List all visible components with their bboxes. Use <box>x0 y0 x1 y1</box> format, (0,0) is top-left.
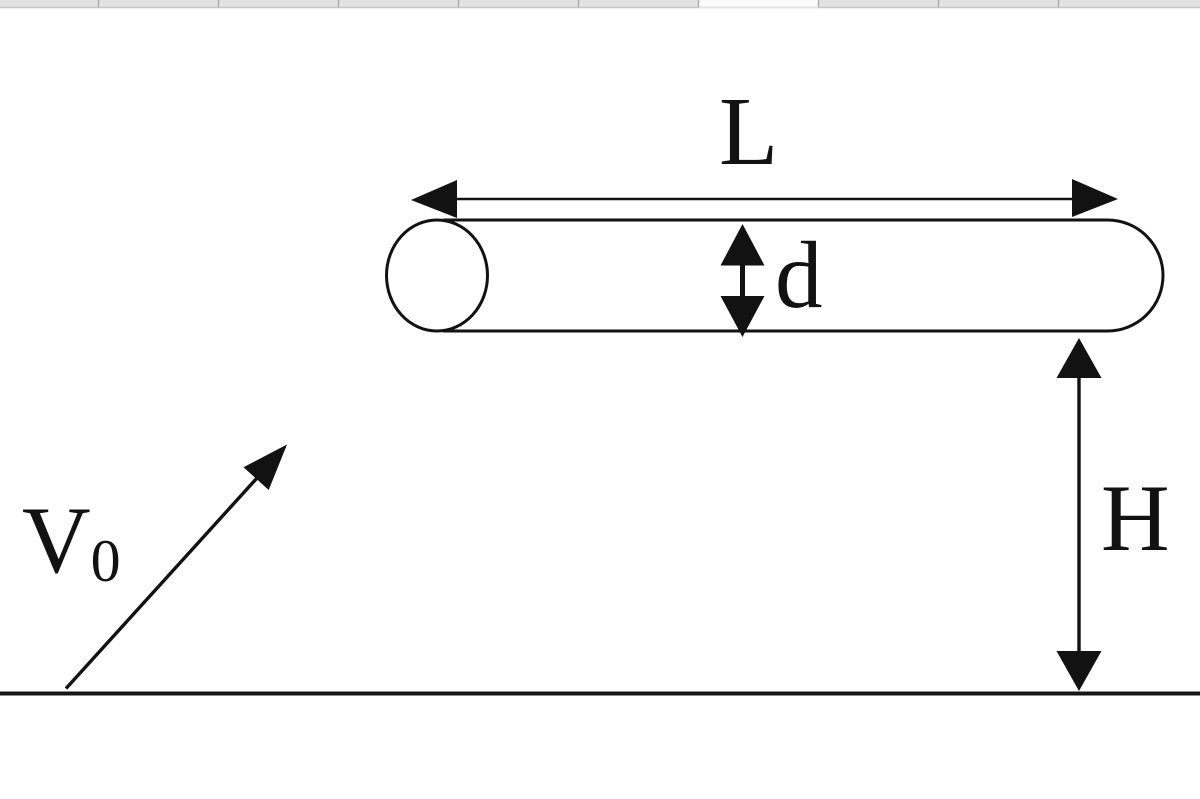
arrow d (double-headed vertical inside pipe) <box>721 224 765 337</box>
svg-text:d: d <box>775 222 823 328</box>
arrow V0 (launch velocity) <box>66 445 287 689</box>
spreadsheet header strip <box>0 0 1200 8</box>
svg-text:V0: V0 <box>22 487 121 594</box>
arrow H (double-headed vertical) <box>1057 338 1102 691</box>
svg-text:H: H <box>1101 465 1170 571</box>
cylinder pipe body <box>443 220 1163 331</box>
arrow L (double-headed horizontal) <box>411 179 1118 218</box>
ground line <box>0 692 1200 696</box>
cylinder left face ellipse <box>387 220 488 331</box>
svg-text:L: L <box>719 78 778 185</box>
